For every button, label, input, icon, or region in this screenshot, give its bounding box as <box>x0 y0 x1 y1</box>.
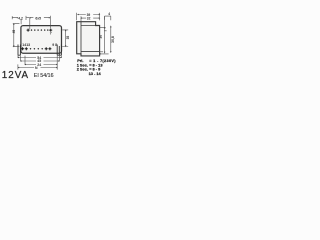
svg-text:1413: 1413 <box>22 43 30 47</box>
svg-text:32: 32 <box>87 17 91 21</box>
right mounting tab <box>57 45 61 56</box>
left mounting tab <box>18 45 20 56</box>
dimension 4 (top right) <box>105 16 111 20</box>
stacked dimension line 54 <box>18 54 61 58</box>
pin row spacing dimension 35 (right of top view) <box>62 30 68 47</box>
top pin row (pins 1-7) <box>27 29 53 32</box>
svg-text:9 8: 9 8 <box>52 43 57 47</box>
stacked dimension line 24 <box>25 56 57 65</box>
svg-text:45: 45 <box>12 30 16 34</box>
svg-text:2 Sec.: 2 Sec. <box>77 67 88 72</box>
side view core inner lines <box>81 22 100 54</box>
svg-text:30,8: 30,8 <box>111 36 115 43</box>
svg-text:24: 24 <box>37 63 41 67</box>
svg-text:4: 4 <box>108 12 110 16</box>
side view outer outline <box>77 22 100 56</box>
dimension 4,2 (left edge to pin1) <box>12 16 30 29</box>
bottom pin row (pins 14,13 ... 9,8) <box>21 47 51 50</box>
left vertical dimension 45 <box>13 24 20 47</box>
dimension 32 <box>81 16 100 24</box>
right vertical dimension line 27 <box>100 16 107 53</box>
pin assignment text block <box>77 58 117 76</box>
svg-text:35: 35 <box>99 35 103 39</box>
stacked dimension line 45 <box>21 56 60 62</box>
svg-text:EI 54/16: EI 54/16 <box>34 73 54 79</box>
svg-text:6x5: 6x5 <box>35 16 41 20</box>
svg-text:4,2: 4,2 <box>18 16 23 20</box>
svg-text:35: 35 <box>66 36 70 40</box>
svg-text:7: 7 <box>50 31 52 35</box>
svg-text:12VA: 12VA <box>2 70 29 81</box>
right vertical dimension line 30,8 <box>100 26 112 54</box>
dimension 6x5 (pin pitch) <box>30 16 51 28</box>
stacked dimension line N <box>18 64 57 69</box>
transformer top view body outline <box>21 26 62 54</box>
svg-text:13 - 14: 13 - 14 <box>89 71 102 76</box>
dimension 39 <box>77 13 100 21</box>
